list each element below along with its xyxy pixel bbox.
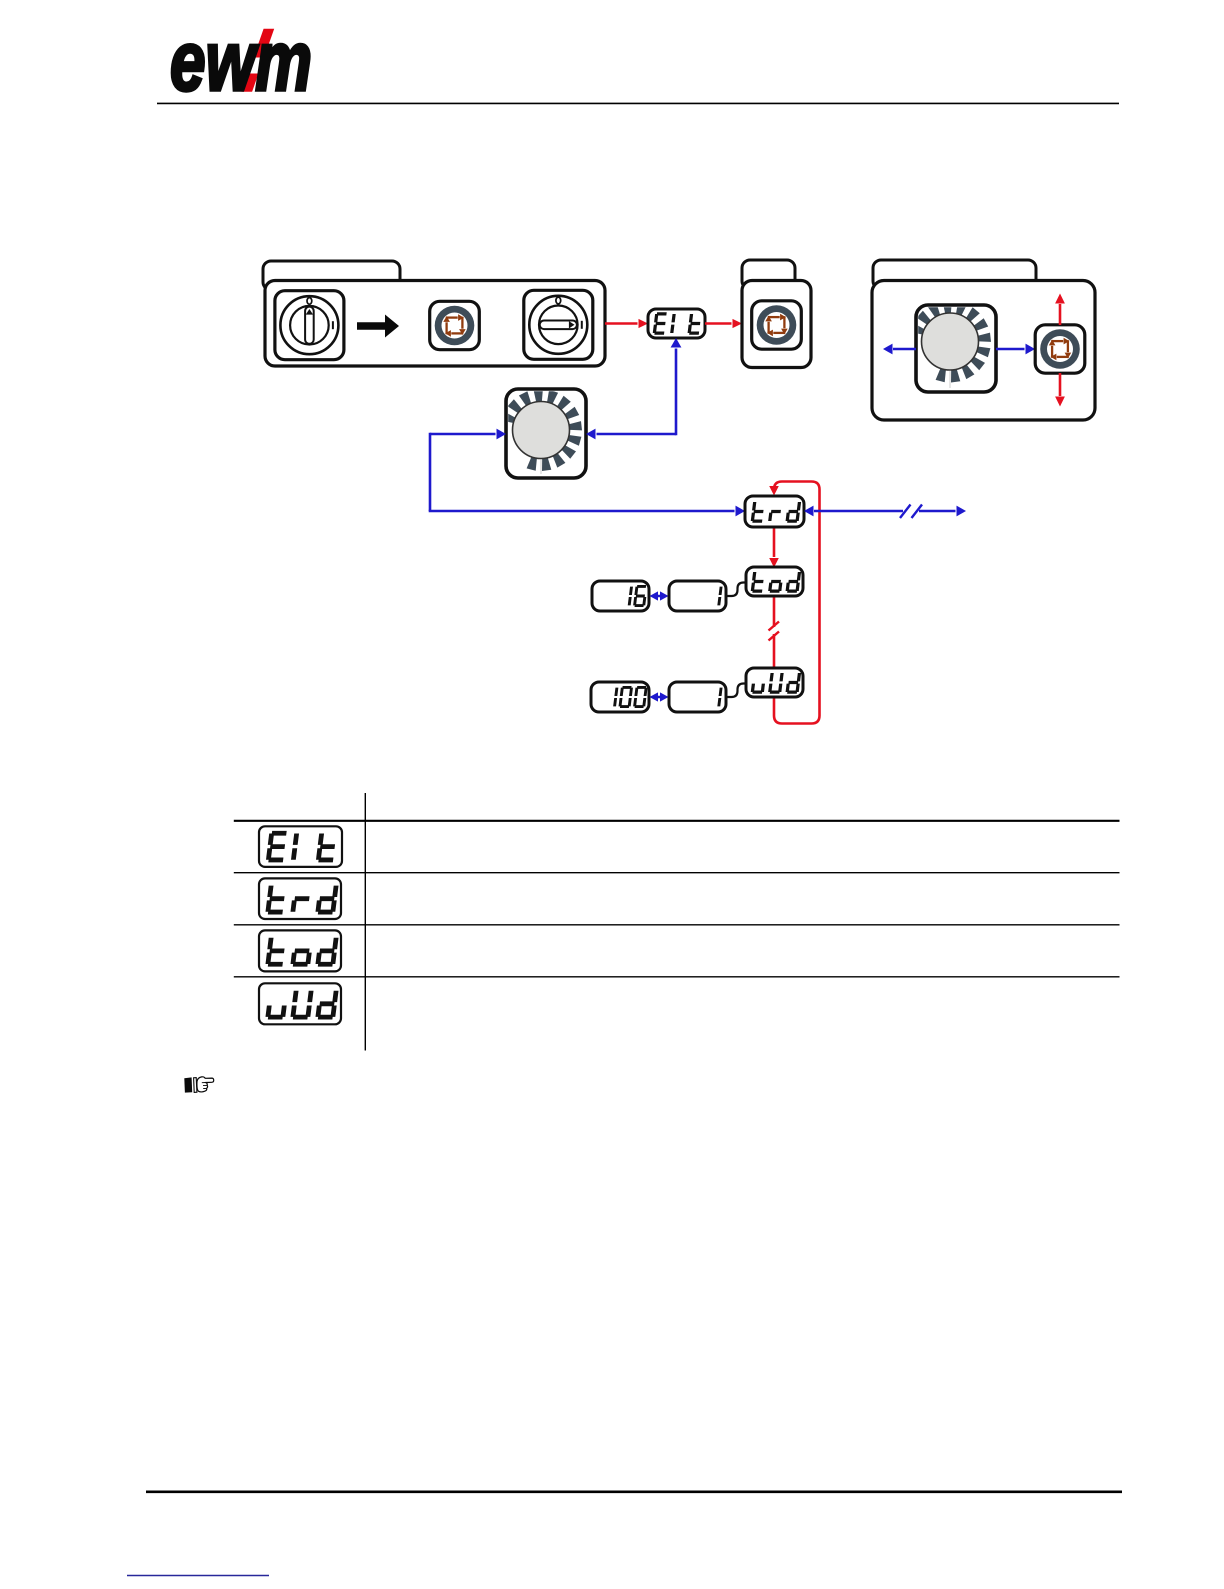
push button P3 (1035, 325, 1085, 373)
right panel tab (873, 260, 1036, 289)
blue arrow knob K2 to button P3 (996, 344, 1035, 355)
footer link underline (127, 1575, 269, 1577)
red break slash 2 (769, 632, 780, 641)
display Elt (648, 309, 705, 338)
blue double arrow 100-1 (650, 692, 669, 701)
table display uud (259, 983, 341, 1024)
footer rule (146, 1491, 1122, 1494)
rotary knob K1 (501, 389, 586, 478)
black arrow (357, 315, 399, 338)
button box body (742, 281, 811, 368)
red wire tod to uud lower part (773, 634, 776, 668)
ewm logo red slash lower piece (242, 74, 259, 92)
display tod (746, 567, 803, 596)
red wire: panel A to display Elt (605, 319, 648, 328)
rotary switch S1 (0 position) (275, 291, 344, 360)
table display trd (259, 878, 341, 919)
header rule (157, 102, 1119, 104)
pointing hand icon (184, 1077, 213, 1093)
table rule 4 (234, 976, 1120, 978)
rotary switch S2 (I position) (524, 290, 593, 359)
display 16 (592, 581, 649, 611)
table display Elt (259, 826, 342, 867)
red arrow trd to tod (769, 527, 779, 568)
display value 1 (tod row) (669, 581, 726, 611)
blue wire right of trd with break (804, 505, 966, 519)
black connector 1-to-uud (726, 684, 746, 698)
panel A tab (263, 261, 400, 290)
red loop wire (769, 482, 819, 724)
red wire tod to uud upper part (773, 596, 776, 627)
push button P1 (430, 301, 480, 349)
display value 1 (uud row) (669, 682, 726, 712)
svg-text:ewm: ewm (170, 14, 312, 108)
button box tab (742, 260, 795, 289)
right panel body (872, 281, 1095, 421)
blue wire: trd loop to knob K1 (429, 429, 745, 517)
blue double arrow 16-1 (650, 591, 669, 600)
red arrow up from button P3 (1055, 294, 1065, 326)
display uud (746, 668, 803, 697)
table rule 2 (234, 872, 1120, 874)
ewm logo text (170, 14, 312, 108)
display 100 (591, 682, 649, 712)
table rule 3 (234, 924, 1120, 926)
panel A body (265, 281, 605, 367)
rotary knob K2 (910, 301, 996, 393)
table rule 1 (234, 820, 1120, 822)
push button P2 (752, 301, 802, 349)
blue wire: display Elt to knob K1 (586, 338, 681, 439)
ewm logo red slash upper piece (254, 29, 275, 58)
blue arrow left of knob K2 (883, 344, 916, 355)
table display tod (259, 930, 341, 971)
red break slash 1 (769, 622, 780, 631)
red arrow down from button P3 (1055, 373, 1065, 407)
black connector 1-to-tod (726, 583, 746, 597)
red wire: display Elt to button box (705, 319, 742, 328)
display trd (745, 496, 804, 527)
table vertical rule (364, 793, 366, 1051)
